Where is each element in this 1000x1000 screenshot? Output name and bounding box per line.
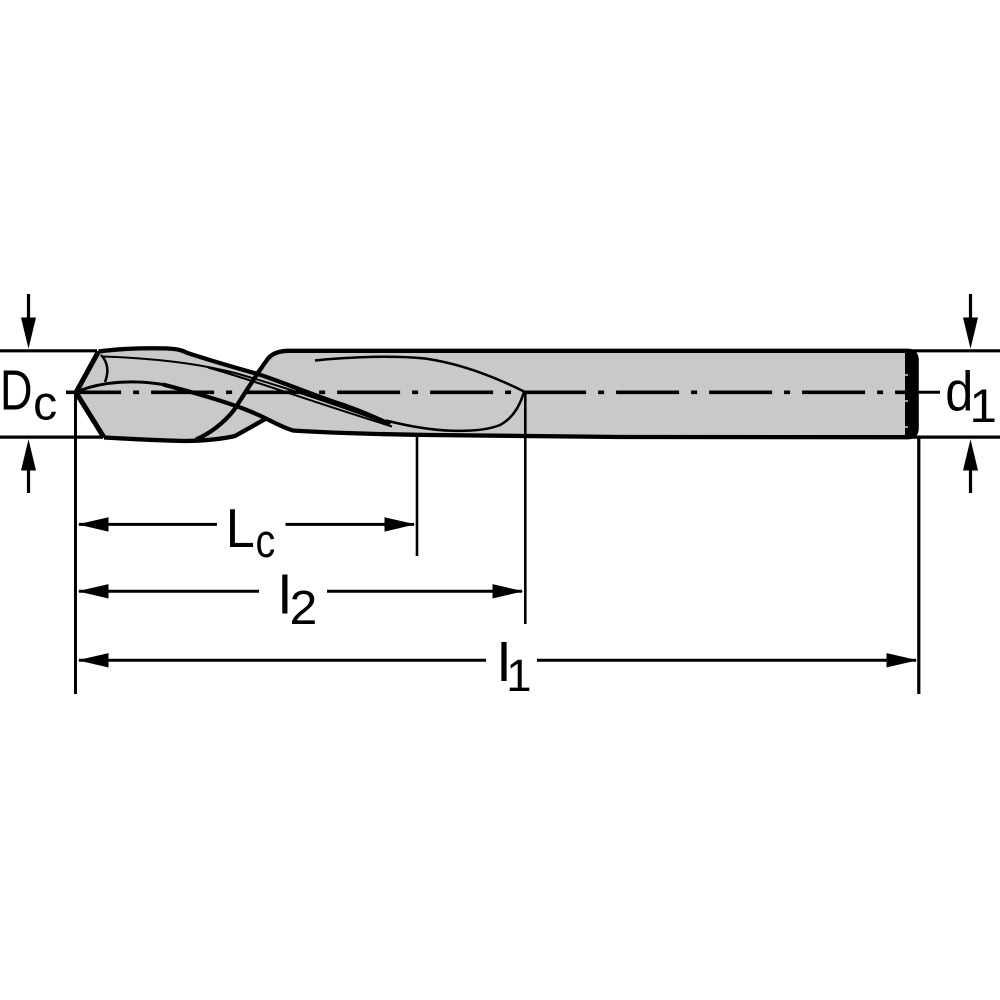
dimension Lc line right xyxy=(286,523,415,526)
shank end cap xyxy=(905,349,919,440)
tip flank lower xyxy=(76,393,104,438)
centerline dash-dot xyxy=(66,390,914,394)
d1 leader line xyxy=(906,391,940,394)
svg-text:1: 1 xyxy=(970,380,997,433)
tip lip curve xyxy=(80,382,163,391)
dimension l1 line left xyxy=(79,659,486,662)
svg-text:L: L xyxy=(226,498,255,560)
extension line l2 xyxy=(524,391,527,624)
flute runout bottom thin arc xyxy=(386,392,524,431)
shank end face ticks xyxy=(905,374,908,376)
drill bottom edge tip arc xyxy=(104,419,266,442)
front land margin thin line (near tip) xyxy=(103,357,386,424)
flute runout top thin arc xyxy=(315,357,524,392)
dimension l2 line right xyxy=(327,590,522,593)
land margin thin line 2 xyxy=(208,368,392,427)
extension line Lc xyxy=(416,437,419,556)
extension line d1 bottom-right xyxy=(912,436,1000,439)
drill body silhouette fill xyxy=(76,348,907,441)
dimension l1 line right xyxy=(537,659,916,662)
rear land edge U rising xyxy=(196,351,288,440)
d1 arrow down (right) xyxy=(969,294,972,322)
svg-text:c: c xyxy=(33,378,57,431)
svg-text:2: 2 xyxy=(290,581,318,635)
dimension Lc line left xyxy=(79,523,217,526)
tip flank upper xyxy=(76,352,99,393)
svg-text:D: D xyxy=(0,358,33,421)
svg-text:c: c xyxy=(256,516,276,568)
flute edge A descending xyxy=(186,353,390,425)
flute edge A2 from lip xyxy=(163,385,266,419)
extension line Dc top-left xyxy=(0,349,97,352)
Dc arrow down (left) xyxy=(27,294,30,322)
extension line left (tip) xyxy=(74,394,77,694)
Dc arrow up (left) xyxy=(27,467,30,493)
drill top straight edge to shank xyxy=(287,349,908,353)
extension line right (shank) xyxy=(917,437,920,694)
drill top edge xyxy=(99,348,187,352)
tip facet arc xyxy=(101,355,107,382)
extension line Dc bottom-left xyxy=(0,436,103,439)
d1 arrow up (right) xyxy=(969,467,972,493)
dimension l2 line left xyxy=(79,590,259,593)
svg-text:1: 1 xyxy=(506,650,531,701)
drill bottom edge mid xyxy=(266,419,908,438)
extension line d1 top-right xyxy=(912,349,1000,352)
